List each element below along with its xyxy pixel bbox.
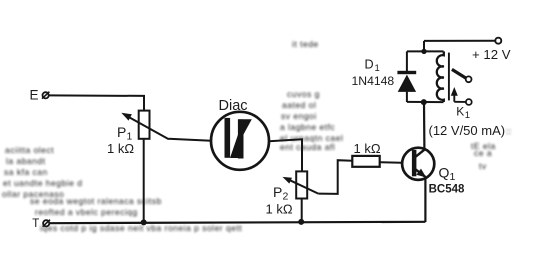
terminal T (32, 218, 50, 230)
wire collector up to relay junction (423, 102, 426, 149)
svg-text:Q: Q (439, 165, 450, 181)
svg-text:1N4148: 1N4148 (352, 74, 395, 88)
relay switch blade (452, 69, 466, 78)
resistor 1k body (352, 156, 379, 167)
svg-text:la abandt: la abandt (6, 156, 46, 166)
bleed-through scan text left block (2, 145, 242, 233)
junction dot relay top (421, 49, 426, 54)
potentiometer P2 wiper arrow (283, 177, 319, 194)
transistor Q1 circle (402, 148, 434, 180)
relay lower contact (466, 99, 472, 105)
svg-text:sv engoi: sv engoi (281, 111, 317, 121)
svg-text:aated ol: aated ol (282, 100, 316, 110)
wire stub to +12V rail (423, 41, 425, 52)
wire +12V rail (424, 40, 495, 42)
junction dot P1/rail (141, 219, 147, 225)
diode D1 bottom wire (406, 92, 408, 102)
transistor collector stroke (416, 149, 425, 156)
svg-text:a lagbne etfc: a lagbne etfc (280, 122, 335, 132)
diode D1 triangle (398, 75, 416, 92)
+12V terminal circle (495, 38, 501, 44)
svg-text:tv: tv (479, 161, 487, 171)
svg-text:iqes cotd p ig sdase neit vba: iqes cotd p ig sdase neit vba roneia p s… (40, 223, 242, 233)
bottom rail wire T to emitter (49, 222, 425, 223)
svg-text:ce a: ce a (474, 148, 492, 158)
diac right bar (238, 119, 244, 158)
junction dot relay bottom (421, 99, 427, 105)
svg-text:(12 V/50 mA): (12 V/50 mA) (429, 123, 506, 138)
svg-text:P: P (117, 124, 126, 140)
diac upper triangle (243, 119, 251, 134)
diode D1 cathode bar (397, 71, 416, 74)
svg-text:1 kΩ: 1 kΩ (107, 141, 134, 156)
junction dot P2/rail (298, 219, 304, 225)
wire emitter down to rail (424, 177, 426, 222)
D1 label (365, 58, 380, 74)
relay K1 coil (437, 51, 444, 102)
svg-text:it tede: it tede (292, 39, 319, 49)
wire P2 wiper to resistor riser (318, 160, 352, 194)
wire P2 bottom to rail (301, 199, 303, 223)
svg-text:1: 1 (465, 110, 470, 121)
Q1 label (439, 165, 456, 184)
svg-text:aciitta olect: aciitta olect (5, 145, 54, 155)
wire diac to P2 top (269, 139, 302, 171)
svg-text:1 kΩ: 1 kΩ (266, 202, 293, 217)
wire P1 bottom to rail (143, 139, 145, 223)
K1 label (456, 105, 470, 122)
svg-text:1: 1 (375, 63, 380, 74)
svg-text:ent cauda afl: ent cauda afl (280, 142, 335, 152)
svg-text:2: 2 (283, 190, 289, 202)
P2 label (273, 184, 289, 203)
wire relay loop top (407, 50, 444, 52)
transistor base bar (412, 150, 417, 176)
diac lower triangle (230, 135, 238, 158)
svg-text:K: K (456, 105, 464, 119)
relay core line (448, 53, 450, 101)
svg-text:se eoda wegtot ralenaca scitsb: se eoda wegtot ralenaca scitsb (30, 196, 162, 206)
svg-text:1: 1 (450, 171, 456, 183)
potentiometer P1 body (139, 111, 150, 139)
svg-text:BC548: BC548 (429, 184, 465, 196)
svg-text:P: P (273, 184, 282, 200)
wire E to P1 top (49, 95, 144, 111)
potentiometer P1 wiper arrow (121, 113, 169, 140)
relay upper contact (466, 76, 472, 82)
terminal E (30, 87, 50, 102)
svg-text:+ 12 V: + 12 V (472, 47, 511, 62)
potentiometer P2 body (296, 171, 307, 198)
svg-text:T: T (32, 218, 39, 230)
svg-text:reofted a vbelc pereciqg: reofted a vbelc pereciqg (35, 207, 138, 217)
relay armature arrow (451, 87, 467, 102)
svg-text:sa kfa can: sa kfa can (4, 167, 48, 177)
transistor emitter stroke (416, 169, 426, 177)
svg-text:::: :: (506, 126, 512, 136)
svg-text:E: E (30, 87, 39, 102)
bleed-through scan text middle block (280, 39, 343, 152)
svg-text:et uandte hegbie d: et uandte hegbie d (3, 178, 82, 188)
bleed-through scan text right block (471, 126, 512, 171)
svg-text:cuvos g: cuvos g (287, 89, 320, 99)
wire relay loop bottom (407, 101, 444, 103)
P1 label (117, 124, 133, 143)
diode D1 top wire (406, 51, 408, 71)
diac left bar (225, 118, 231, 158)
diac body circle (211, 112, 269, 170)
wire wiper to diac (169, 139, 212, 141)
svg-text:D: D (365, 58, 374, 72)
svg-text:1 kΩ: 1 kΩ (354, 141, 381, 156)
transistor emitter arrowhead (416, 169, 426, 178)
wire resistor to base (380, 161, 412, 164)
